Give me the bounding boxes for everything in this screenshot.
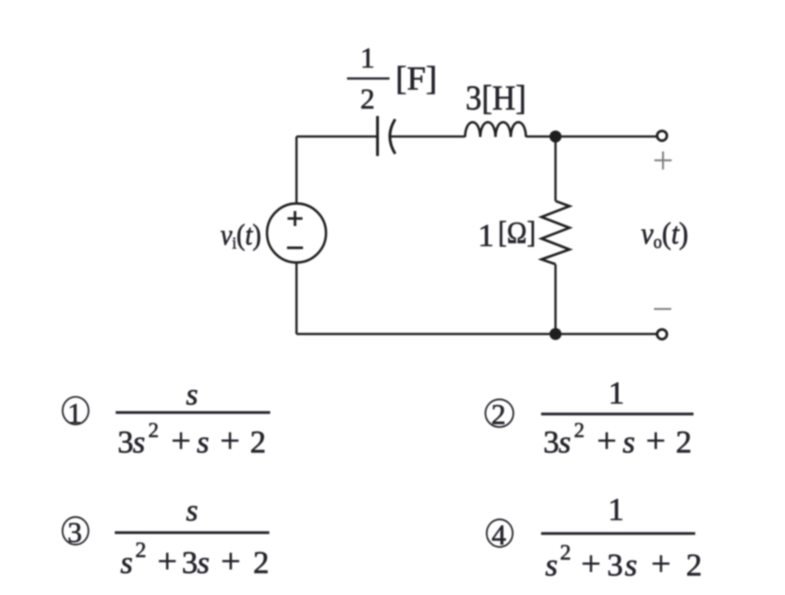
option 4 circled number	[487, 519, 513, 547]
svg-text:2: 2	[560, 540, 571, 565]
capacitor C 1/2 F left plate	[376, 116, 379, 156]
svg-text:1: 1	[68, 398, 83, 430]
wire top-left horizontal	[297, 135, 378, 137]
svg-text:2: 2	[491, 399, 506, 431]
svg-text:s: s	[625, 547, 637, 583]
capacitor C 1/2 F right curved plate	[390, 119, 395, 154]
source plus sign	[288, 211, 303, 226]
voltage source circle vi(t)	[267, 204, 326, 263]
option 2 fraction bar	[541, 413, 693, 416]
svg-text:2: 2	[686, 547, 702, 583]
option 3 circled number	[63, 517, 89, 545]
svg-text:+: +	[221, 542, 241, 581]
svg-text:+: +	[157, 542, 177, 581]
svg-text:s: s	[545, 547, 557, 583]
svg-text:s: s	[120, 544, 132, 580]
svg-text:3: 3	[607, 547, 623, 583]
option 3 fraction bar	[115, 531, 269, 534]
svg-text:2: 2	[574, 418, 585, 442]
node bottom junction dot	[550, 328, 562, 340]
terminal top-right circle	[657, 131, 667, 141]
wire source bottom	[295, 263, 297, 335]
svg-text:1: 1	[608, 375, 624, 411]
option 4 denominator s^2+3s+2	[545, 540, 702, 584]
svg-text:1: 1	[360, 43, 375, 75]
inductor L 3H	[465, 122, 526, 137]
wire capacitor to inductor	[391, 135, 466, 137]
wire node to resistor	[554, 137, 556, 202]
svg-text:3: 3	[543, 424, 559, 460]
svg-text:+: +	[220, 422, 240, 461]
svg-text:2: 2	[253, 544, 269, 580]
svg-text:3: 3	[67, 517, 82, 549]
option 1 circled number	[63, 397, 89, 425]
svg-text:3[H]: 3[H]	[466, 79, 527, 118]
svg-text:2: 2	[135, 537, 146, 562]
node top junction dot	[550, 131, 562, 143]
svg-text:s: s	[186, 493, 198, 528]
svg-text:s: s	[133, 424, 145, 460]
svg-text:2: 2	[360, 84, 375, 116]
terminal bottom-right circle	[657, 329, 667, 339]
source minus sign	[287, 247, 303, 250]
svg-text:[Ω]: [Ω]	[498, 216, 536, 250]
svg-text:3: 3	[182, 544, 198, 580]
svg-text:1: 1	[608, 491, 624, 527]
svg-text:+: +	[597, 422, 617, 461]
svg-text:s: s	[623, 424, 635, 460]
svg-text:+: +	[171, 422, 191, 461]
output minus mark	[654, 308, 671, 310]
output plus mark	[654, 152, 671, 170]
wire resistor to bottom node	[554, 264, 556, 334]
svg-text:+: +	[651, 545, 671, 584]
wire source top	[295, 137, 297, 204]
option 4 fraction bar	[541, 532, 695, 535]
svg-text:2: 2	[250, 424, 266, 460]
option 1 fraction bar	[116, 411, 271, 414]
option 3 denominator s^2+3s+2	[120, 537, 269, 581]
svg-text:s: s	[558, 424, 570, 460]
svg-text:+: +	[581, 545, 601, 584]
bottom wire	[297, 333, 658, 335]
option 2 denominator 3s^2+s+2	[543, 418, 692, 461]
svg-text:s: s	[197, 544, 209, 580]
option 2 circled number	[485, 399, 513, 427]
svg-text:[F]: [F]	[396, 61, 438, 98]
svg-text:vi(t): vi(t)	[221, 219, 262, 253]
svg-text:vo(t): vo(t)	[641, 217, 688, 252]
option 1 denominator 3s^2+s+2	[118, 418, 267, 461]
svg-text:s: s	[186, 377, 198, 412]
svg-text:2: 2	[676, 424, 692, 460]
svg-text:3: 3	[118, 424, 134, 460]
wire inductor to top-right terminal	[526, 135, 657, 137]
svg-text:1: 1	[478, 217, 494, 253]
svg-text:s: s	[197, 424, 209, 460]
label capacitor fraction bar	[347, 77, 390, 79]
svg-text:2: 2	[148, 418, 159, 442]
svg-text:4: 4	[492, 520, 507, 552]
resistor R 1 ohm zigzag	[542, 201, 570, 264]
svg-text:+: +	[646, 422, 666, 461]
